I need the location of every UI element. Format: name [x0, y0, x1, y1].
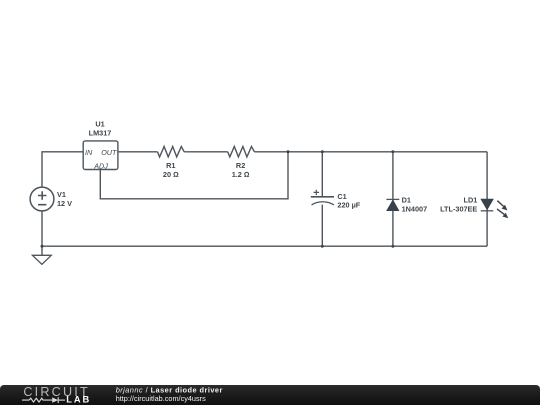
svg-text:http://circuitlab.com/cy4usrs: http://circuitlab.com/cy4usrs	[116, 394, 206, 403]
svg-text:LAB: LAB	[66, 394, 91, 404]
